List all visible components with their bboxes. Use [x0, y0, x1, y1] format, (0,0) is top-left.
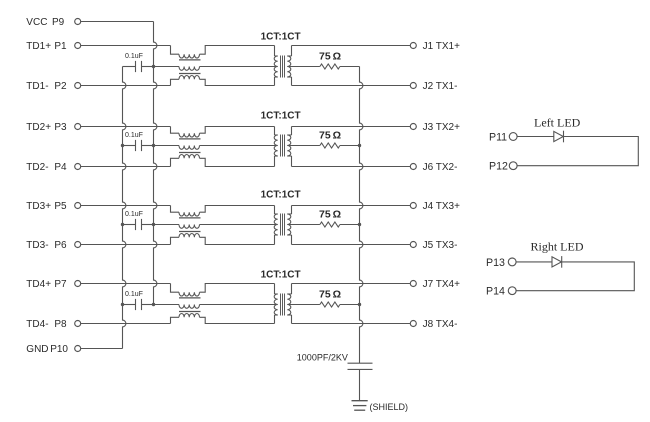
- output J1 TX1+: [292, 45, 411, 47]
- output J5 TX3-: [292, 244, 411, 246]
- svg-text:TD2-: TD2-: [26, 162, 48, 173]
- svg-text:J6 TX2-: J6 TX2-: [423, 162, 458, 173]
- svg-text:P6: P6: [54, 240, 67, 251]
- svg-text:(SHIELD): (SHIELD): [370, 402, 409, 412]
- svg-text:75: 75: [319, 130, 331, 142]
- wire P7 to choke: [80, 283, 170, 285]
- wire GND P10 to GND rail: [80, 348, 122, 350]
- choke L4 centre winding: [154, 304, 180, 306]
- svg-text:J2 TX1-: J2 TX1-: [423, 81, 458, 92]
- output J6 TX2-: [292, 166, 411, 168]
- svg-text:0.1uF: 0.1uF: [125, 211, 143, 218]
- junction dots channel 3: [121, 223, 124, 226]
- svg-text:TD4-: TD4-: [26, 319, 48, 330]
- transformer T4 core: [280, 294, 282, 316]
- wire P8 to choke: [80, 323, 170, 325]
- output J4 TX3+: [292, 205, 411, 207]
- wire resistor R2 to rail: [340, 145, 360, 147]
- choke L2 bottom branch: [171, 158, 180, 166]
- junction dots channel 1: [152, 65, 155, 68]
- LED D2 (Right LED): [552, 257, 562, 267]
- svg-text:P5: P5: [54, 201, 67, 212]
- svg-text:P4: P4: [54, 162, 67, 173]
- transformer T1 secondary: [291, 46, 293, 57]
- svg-text:1CT:1CT: 1CT:1CT: [261, 190, 301, 201]
- choke L3 bottom branch: [171, 237, 180, 244]
- wire resistor R4 to rail: [340, 304, 360, 306]
- transformer T4 secondary: [291, 284, 293, 295]
- svg-text:TD1+: TD1+: [26, 41, 51, 52]
- svg-text:P3: P3: [54, 122, 67, 133]
- transformer T3 primary: [274, 206, 276, 215]
- svg-text:TD4+: TD4+: [26, 279, 51, 290]
- choke L4 bottom branch: [171, 317, 180, 323]
- choke L4 top branch: [171, 284, 180, 293]
- wire P4 to choke: [80, 166, 170, 168]
- junction dots channel 4: [121, 303, 124, 306]
- GND rail (vertical, hops over signal rows): [123, 67, 126, 349]
- svg-text:Ω: Ω: [333, 130, 341, 142]
- transformer T1 primary: [274, 46, 276, 57]
- wire P5 to choke: [80, 205, 170, 207]
- svg-text:TD2+: TD2+: [26, 122, 51, 133]
- junction rail channel 3: [358, 223, 361, 226]
- choke L3 core: [179, 217, 201, 219]
- svg-text:0.1uF: 0.1uF: [125, 291, 143, 298]
- choke L3 centre winding: [154, 224, 180, 226]
- svg-text:Ω: Ω: [333, 51, 341, 63]
- choke L1 centre winding: [154, 66, 180, 68]
- svg-text:J4 TX3+: J4 TX3+: [423, 201, 460, 212]
- svg-text:0.1uF: 0.1uF: [125, 53, 143, 60]
- svg-text:J8 TX4-: J8 TX4-: [423, 319, 458, 330]
- output J7 TX4+: [292, 283, 411, 285]
- svg-text:TD1-: TD1-: [26, 81, 48, 92]
- svg-text:Ω: Ω: [333, 209, 341, 221]
- transformer T3 core: [280, 214, 282, 236]
- wire LED D2 to loop: [516, 262, 634, 291]
- transformer T2 secondary: [291, 127, 293, 136]
- choke L2 centre winding: [154, 145, 180, 147]
- svg-text:P1: P1: [54, 41, 67, 52]
- ground (SHIELD): [352, 400, 368, 402]
- svg-text:P9: P9: [52, 17, 65, 28]
- wire VCC P9 to VCC rail: [80, 21, 153, 23]
- wire LED D1 to loop: [517, 137, 638, 166]
- svg-text:J3 TX2+: J3 TX2+: [423, 122, 460, 133]
- junction dots channel 2: [121, 144, 124, 147]
- svg-text:1CT:1CT: 1CT:1CT: [261, 111, 301, 122]
- svg-text:Ω: Ω: [333, 289, 341, 301]
- termination rail to shield cap (hops over output rows): [360, 67, 363, 364]
- transformer T3 secondary: [291, 206, 293, 215]
- LED D1 (Left LED): [554, 131, 564, 141]
- choke L4 core: [179, 297, 201, 299]
- choke L2 core 2: [179, 152, 201, 154]
- choke L4 core 2: [179, 311, 201, 313]
- svg-text:1000PF/2KV: 1000PF/2KV: [297, 352, 348, 362]
- svg-text:TD3-: TD3-: [26, 240, 48, 251]
- wire P1 to choke: [80, 45, 170, 47]
- svg-text:75: 75: [319, 51, 331, 63]
- wire P6 to choke: [80, 244, 170, 246]
- wire resistor R3 to rail: [340, 224, 360, 226]
- svg-text:P11: P11: [489, 131, 507, 143]
- svg-text:75: 75: [319, 209, 331, 221]
- svg-text:1CT:1CT: 1CT:1CT: [261, 270, 301, 281]
- svg-text:P8: P8: [54, 319, 67, 330]
- choke L1 top branch: [171, 46, 180, 55]
- wire P2 to choke: [80, 85, 170, 87]
- choke L1 bottom branch: [171, 79, 180, 85]
- svg-text:GND: GND: [26, 344, 48, 355]
- svg-text:Right LED: Right LED: [531, 240, 584, 254]
- svg-text:P14: P14: [486, 286, 505, 298]
- wire P11 to LED D1: [517, 136, 554, 138]
- svg-text:P12: P12: [489, 161, 508, 173]
- junction rail channel 2: [358, 144, 361, 147]
- svg-text:VCC: VCC: [26, 17, 47, 28]
- transformer T2 core: [280, 135, 282, 157]
- choke L2 top branch: [171, 127, 180, 134]
- wire P13 to LED D2: [516, 261, 552, 263]
- svg-text:J5 TX3-: J5 TX3-: [423, 240, 458, 251]
- choke L1 core 2: [179, 73, 201, 75]
- transformer T4 primary: [274, 284, 276, 295]
- wire P3 to choke: [80, 126, 170, 128]
- svg-text:1CT:1CT: 1CT:1CT: [261, 32, 301, 43]
- output J8 TX4-: [292, 323, 411, 325]
- VCC rail (vertical, hops over signal rows): [154, 22, 157, 305]
- choke L3 top branch: [171, 206, 180, 213]
- wire resistor R1 to rail: [340, 66, 360, 68]
- svg-text:TD3+: TD3+: [26, 201, 51, 212]
- output J2 TX1-: [292, 85, 411, 87]
- output J3 TX2+: [292, 126, 411, 128]
- svg-text:Left LED: Left LED: [534, 115, 581, 129]
- svg-text:75: 75: [319, 289, 331, 301]
- choke L2 core: [179, 138, 201, 140]
- svg-text:0.1uF: 0.1uF: [125, 132, 143, 139]
- svg-text:P7: P7: [54, 279, 67, 290]
- svg-text:J7 TX4+: J7 TX4+: [423, 279, 460, 290]
- choke L1 core: [179, 59, 201, 61]
- junction rail channel 4: [358, 303, 361, 306]
- svg-text:P2: P2: [54, 81, 67, 92]
- svg-text:P13: P13: [486, 257, 505, 269]
- transformer T2 primary: [274, 127, 276, 136]
- transformer T1 core: [280, 56, 282, 78]
- svg-text:J1 TX1+: J1 TX1+: [423, 41, 460, 52]
- svg-text:P10: P10: [50, 344, 68, 355]
- choke L3 core 2: [179, 231, 201, 233]
